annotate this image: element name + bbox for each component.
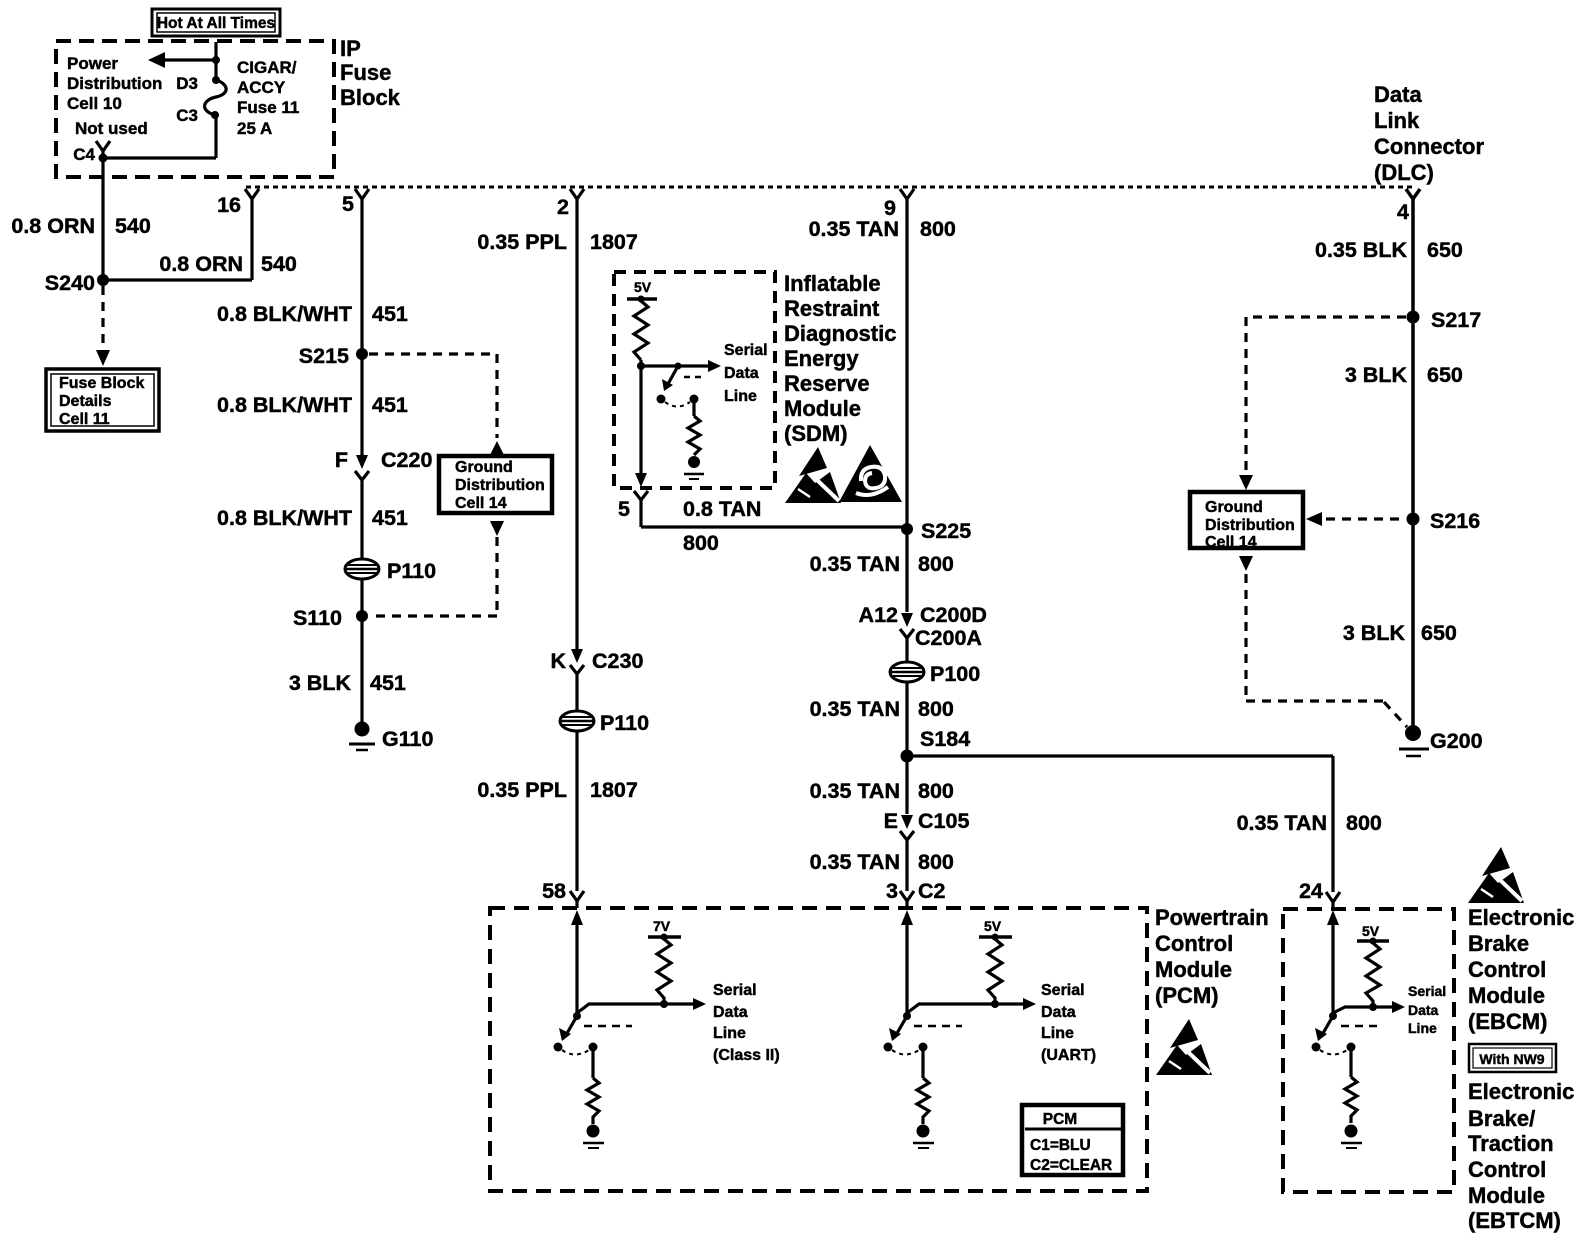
svg-text:0.8 BLK/WHT: 0.8 BLK/WHT [217, 506, 352, 530]
svg-text:With NW9: With NW9 [1479, 1051, 1544, 1067]
svg-text:451: 451 [372, 506, 408, 530]
svg-text:Power: Power [67, 54, 118, 73]
svg-text:C3: C3 [176, 106, 198, 125]
svg-text:C2: C2 [918, 879, 946, 903]
svg-text:Block: Block [340, 85, 401, 110]
svg-text:0.8 ORN: 0.8 ORN [159, 252, 243, 276]
svg-text:Fuse Block: Fuse Block [59, 375, 144, 392]
svg-text:S216: S216 [1430, 509, 1480, 533]
svg-text:E: E [884, 809, 898, 833]
svg-text:3: 3 [886, 879, 898, 903]
svg-text:3 BLK: 3 BLK [1343, 621, 1406, 645]
svg-text:0.35 PPL: 0.35 PPL [477, 778, 567, 802]
svg-text:(EBTCM): (EBTCM) [1468, 1208, 1561, 1233]
svg-text:(Class II): (Class II) [713, 1047, 780, 1064]
svg-text:Powertrain: Powertrain [1155, 905, 1269, 930]
svg-text:3 BLK: 3 BLK [289, 671, 352, 695]
svg-text:C1=BLU: C1=BLU [1030, 1137, 1091, 1154]
svg-text:451: 451 [370, 671, 406, 695]
svg-text:5V: 5V [634, 279, 652, 295]
svg-text:0.35 TAN: 0.35 TAN [810, 697, 900, 721]
svg-text:S240: S240 [45, 271, 95, 295]
svg-text:Connector: Connector [1374, 134, 1484, 159]
svg-text:K: K [550, 649, 566, 673]
svg-text:C105: C105 [918, 809, 969, 833]
svg-text:Cell 11: Cell 11 [59, 411, 110, 428]
svg-text:Electronic: Electronic [1468, 1079, 1574, 1104]
svg-text:58: 58 [542, 879, 566, 903]
svg-text:800: 800 [1346, 811, 1382, 835]
svg-text:Distribution: Distribution [455, 477, 545, 494]
svg-text:5V: 5V [1362, 923, 1380, 939]
svg-text:G200: G200 [1430, 729, 1483, 753]
svg-text:2: 2 [557, 195, 569, 219]
svg-text:Brake/: Brake/ [1468, 1106, 1535, 1131]
svg-text:Data: Data [724, 365, 759, 382]
svg-text:P110: P110 [600, 711, 649, 735]
svg-text:S215: S215 [299, 344, 349, 368]
svg-text:S217: S217 [1431, 308, 1481, 332]
svg-text:P110: P110 [387, 559, 436, 583]
svg-text:16: 16 [217, 193, 241, 217]
svg-text:Data: Data [1041, 1004, 1076, 1021]
svg-text:Fuse: Fuse [340, 60, 391, 85]
svg-text:Line: Line [1041, 1025, 1074, 1042]
svg-text:Electronic: Electronic [1468, 905, 1574, 930]
svg-text:Data: Data [1374, 82, 1422, 107]
svg-text:800: 800 [918, 779, 954, 803]
svg-text:7V: 7V [653, 918, 671, 934]
svg-text:800: 800 [918, 850, 954, 874]
svg-text:0.35 PPL: 0.35 PPL [477, 230, 567, 254]
svg-text:Ground: Ground [455, 459, 513, 476]
svg-text:Link: Link [1374, 108, 1420, 133]
svg-text:Details: Details [59, 393, 112, 410]
svg-text:Line: Line [724, 388, 757, 405]
svg-text:S225: S225 [921, 519, 971, 543]
svg-text:4: 4 [1397, 200, 1409, 224]
svg-text:800: 800 [918, 697, 954, 721]
svg-text:A12: A12 [859, 603, 898, 627]
svg-text:0.35 BLK: 0.35 BLK [1315, 238, 1407, 262]
svg-text:0.35 TAN: 0.35 TAN [1237, 811, 1327, 835]
svg-text:5: 5 [342, 192, 354, 216]
svg-text:CIGAR/: CIGAR/ [237, 58, 297, 77]
svg-text:(SDM): (SDM) [784, 421, 848, 446]
svg-text:IP: IP [340, 36, 361, 61]
svg-text:Serial: Serial [1408, 983, 1446, 999]
svg-text:Restraint: Restraint [784, 296, 880, 321]
svg-text:Line: Line [713, 1025, 746, 1042]
svg-text:5: 5 [618, 497, 630, 521]
svg-text:800: 800 [920, 217, 956, 241]
svg-text:(EBCM): (EBCM) [1468, 1009, 1547, 1034]
svg-text:ACCY: ACCY [237, 78, 286, 97]
svg-text:540: 540 [261, 252, 297, 276]
svg-text:F: F [335, 448, 348, 472]
svg-text:650: 650 [1427, 238, 1463, 262]
svg-text:0.8 TAN: 0.8 TAN [683, 497, 761, 521]
svg-text:650: 650 [1421, 621, 1457, 645]
svg-text:Data: Data [713, 1004, 748, 1021]
svg-text:C200D: C200D [920, 603, 987, 627]
svg-text:Energy: Energy [784, 346, 859, 371]
svg-text:Not used: Not used [75, 119, 148, 138]
svg-text:9: 9 [884, 196, 896, 220]
svg-text:Cell 14: Cell 14 [1205, 534, 1257, 551]
svg-text:Control: Control [1468, 1157, 1546, 1182]
svg-text:C2=CLEAR: C2=CLEAR [1030, 1157, 1112, 1174]
svg-text:S110: S110 [293, 606, 342, 630]
svg-text:Reserve: Reserve [784, 371, 870, 396]
svg-text:Control: Control [1155, 931, 1233, 956]
svg-text:0.35 TAN: 0.35 TAN [810, 850, 900, 874]
svg-text:(PCM): (PCM) [1155, 983, 1219, 1008]
svg-text:451: 451 [372, 302, 408, 326]
svg-text:0.8 BLK/WHT: 0.8 BLK/WHT [217, 302, 352, 326]
svg-text:Brake: Brake [1468, 931, 1529, 956]
svg-text:Distribution: Distribution [67, 74, 162, 93]
svg-text:Ground: Ground [1205, 499, 1263, 516]
svg-text:25 A: 25 A [237, 119, 272, 138]
svg-text:Module: Module [784, 396, 861, 421]
svg-text:C200A: C200A [915, 626, 982, 650]
svg-text:Traction: Traction [1468, 1131, 1554, 1156]
svg-text:1807: 1807 [590, 778, 638, 802]
svg-text:0.8 BLK/WHT: 0.8 BLK/WHT [217, 393, 352, 417]
svg-text:C230: C230 [592, 649, 643, 673]
svg-text:Module: Module [1155, 957, 1232, 982]
svg-text:5V: 5V [984, 918, 1002, 934]
svg-text:Control: Control [1468, 957, 1546, 982]
svg-text:D3: D3 [176, 74, 198, 93]
svg-text:Module: Module [1468, 1183, 1545, 1208]
svg-text:1807: 1807 [590, 230, 638, 254]
svg-text:P100: P100 [930, 662, 980, 686]
svg-text:Distribution: Distribution [1205, 517, 1295, 534]
svg-text:PCM: PCM [1043, 1111, 1077, 1128]
svg-text:0.35 TAN: 0.35 TAN [809, 217, 899, 241]
svg-text:Fuse 11: Fuse 11 [237, 98, 299, 117]
svg-text:Serial: Serial [1041, 982, 1085, 999]
svg-text:G110: G110 [382, 727, 433, 751]
svg-text:Module: Module [1468, 983, 1545, 1008]
svg-text:3 BLK: 3 BLK [1345, 363, 1408, 387]
svg-text:Serial: Serial [713, 982, 757, 999]
svg-text:0.8 ORN: 0.8 ORN [11, 214, 95, 238]
svg-text:0.35 TAN: 0.35 TAN [810, 552, 900, 576]
svg-text:C4: C4 [73, 145, 95, 164]
svg-text:Cell 10: Cell 10 [67, 94, 122, 113]
svg-text:0.35 TAN: 0.35 TAN [810, 779, 900, 803]
svg-text:Hot At All Times: Hot At All Times [157, 15, 275, 32]
svg-text:800: 800 [683, 531, 719, 555]
svg-text:C220: C220 [381, 448, 432, 472]
svg-text:Diagnostic: Diagnostic [784, 321, 896, 346]
svg-text:650: 650 [1427, 363, 1463, 387]
svg-text:Cell 14: Cell 14 [455, 495, 507, 512]
svg-text:800: 800 [918, 552, 954, 576]
svg-text:451: 451 [372, 393, 408, 417]
svg-text:Inflatable: Inflatable [784, 271, 881, 296]
svg-text:540: 540 [115, 214, 151, 238]
svg-text:(UART): (UART) [1041, 1047, 1096, 1064]
svg-text:(DLC): (DLC) [1374, 160, 1434, 185]
svg-text:Line: Line [1408, 1020, 1437, 1036]
svg-text:Data: Data [1408, 1002, 1439, 1018]
svg-text:24: 24 [1299, 879, 1323, 903]
svg-text:Serial: Serial [724, 342, 768, 359]
svg-text:S184: S184 [920, 727, 970, 751]
